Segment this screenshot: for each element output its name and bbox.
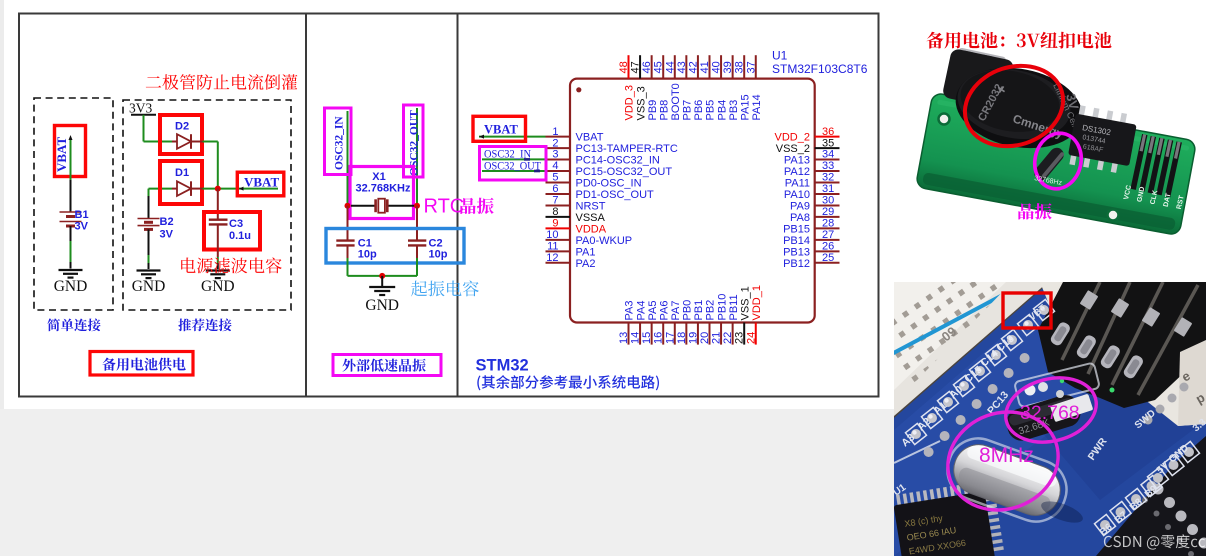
svg-text:10: 10 xyxy=(546,229,558,241)
pin 15 PA5 xyxy=(641,301,659,345)
svg-text:8MHz: 8MHz xyxy=(979,444,1034,467)
svg-text:4: 4 xyxy=(552,160,558,172)
net label OSC32_IN (vertical) xyxy=(325,108,352,206)
startup capacitors highlight box xyxy=(326,229,464,264)
svg-text:PA1: PA1 xyxy=(576,246,596,258)
svg-text:GND: GND xyxy=(201,278,235,295)
schematic sheet frame xyxy=(19,14,879,397)
wire VBAT to battery B1 xyxy=(69,135,73,212)
pin 44 BOOT0 xyxy=(664,55,682,120)
pin 18 PB0 xyxy=(676,300,694,345)
svg-text:48: 48 xyxy=(618,61,630,73)
svg-text:U1: U1 xyxy=(772,49,788,63)
IC U1 STM32F103C8T6 body xyxy=(570,79,815,323)
junction node (D1/D2/C3/VBAT) xyxy=(215,186,221,192)
wire D1 cathode to junction and VBAT xyxy=(203,188,279,190)
svg-text:PA5: PA5 xyxy=(647,301,659,321)
pin 21 PB10 xyxy=(711,294,729,345)
ground GND (B1) xyxy=(54,270,88,295)
annotation: startup capacitors (light blue) xyxy=(411,281,479,297)
svg-text:3: 3 xyxy=(552,149,558,161)
svg-text:46: 46 xyxy=(641,61,653,73)
svg-text:VSS_3: VSS_3 xyxy=(635,86,647,120)
svg-text:29: 29 xyxy=(822,206,834,218)
pin 41 PB5 xyxy=(699,55,717,120)
svg-text:VDD_2: VDD_2 xyxy=(775,132,810,144)
wire junction to capacitor C3 xyxy=(217,189,219,220)
svg-text:30: 30 xyxy=(822,195,834,207)
svg-text:PB2: PB2 xyxy=(705,300,717,321)
wire C3 to ground xyxy=(217,224,219,269)
wire C1 to ground rail xyxy=(347,245,349,276)
svg-text:OSC32_IN: OSC32_IN xyxy=(334,116,346,170)
svg-text:8: 8 xyxy=(552,206,558,218)
pin 4 PC15-OSC32_OUT xyxy=(546,160,673,178)
svg-text:PA0-WKUP: PA0-WKUP xyxy=(576,235,633,247)
capacitor C3 0.1u xyxy=(204,212,260,250)
svg-text:STM32: STM32 xyxy=(476,357,529,375)
pin 48 VDD_3 xyxy=(618,55,636,120)
wire D2 cathode to junction xyxy=(203,142,218,189)
wire battery B2 to ground xyxy=(148,229,150,269)
ground rail wire xyxy=(348,275,418,277)
svg-text:VBAT: VBAT xyxy=(576,132,604,144)
caption: simple connection xyxy=(47,319,100,332)
svg-text:38: 38 xyxy=(734,61,746,73)
pin 20 PB2 xyxy=(699,300,717,345)
annotation: RTC crystal (magenta) xyxy=(424,196,465,218)
svg-text:PC15-OSC32_OUT: PC15-OSC32_OUT xyxy=(576,166,673,178)
annotation: diode prevents current backflow (red) xyxy=(146,74,298,90)
junction node crystal right xyxy=(414,203,420,209)
net label VBAT (output) xyxy=(237,172,283,196)
pin 13 PA3 xyxy=(618,301,636,345)
photo: magenta ellipse 32.768 crystal xyxy=(999,369,1103,451)
svg-text:PA7: PA7 xyxy=(670,301,682,321)
svg-text:21: 21 xyxy=(711,332,723,344)
photo: red ellipse around battery xyxy=(954,53,1073,158)
photo: RTC crystal cylinder xyxy=(1031,145,1066,183)
svg-text:31: 31 xyxy=(822,183,834,195)
pin 24 VDD_1 xyxy=(745,285,763,345)
svg-text:20: 20 xyxy=(699,332,711,344)
photo: green PCB module board xyxy=(915,92,1196,235)
svg-text:35: 35 xyxy=(822,137,834,149)
battery B2 3V xyxy=(138,216,174,241)
svg-text:13: 13 xyxy=(618,332,630,344)
pin 39 PB3 xyxy=(722,55,740,120)
svg-text:VSS_1: VSS_1 xyxy=(739,286,751,320)
svg-text:PA6: PA6 xyxy=(658,301,670,321)
svg-text:VBAT: VBAT xyxy=(244,175,279,190)
photo: silkscreen pin labels xyxy=(1034,175,1186,210)
pin 36 VDD_2 xyxy=(775,126,840,144)
svg-text:PC14-OSC32_IN: PC14-OSC32_IN xyxy=(576,155,660,167)
svg-text:D1: D1 xyxy=(175,167,189,179)
svg-text:VDD_1: VDD_1 xyxy=(751,285,763,320)
wire 3V3 to diode D2 xyxy=(143,115,145,142)
svg-text:6: 6 xyxy=(552,183,558,195)
photo: DS1302 chip xyxy=(1066,105,1138,175)
net label OSC32_OUT (vertical) xyxy=(404,105,424,206)
photo: crystal caption (magenta) xyxy=(1018,203,1051,220)
dashed group box: simple connection xyxy=(34,98,113,310)
pin 34 PA13 xyxy=(784,149,840,167)
svg-text:RTC: RTC xyxy=(424,196,465,218)
svg-text:PA14: PA14 xyxy=(751,94,763,120)
photo: CSDN watermark xyxy=(1104,534,1205,549)
svg-text:PB1: PB1 xyxy=(693,300,705,321)
caption: rest refers to minimum system circuit xyxy=(477,375,659,390)
photo: pin header xyxy=(1130,134,1181,197)
svg-text:OSC32_OUT: OSC32_OUT xyxy=(484,161,541,173)
svg-text:PA15: PA15 xyxy=(739,94,751,120)
pin 14 PA4 xyxy=(630,301,648,345)
caption: recommended connection xyxy=(178,319,232,332)
photo: battery holder xyxy=(942,46,1015,110)
svg-text:PB4: PB4 xyxy=(716,100,728,121)
svg-text:25: 25 xyxy=(822,252,834,264)
svg-text:PB13: PB13 xyxy=(783,246,810,258)
pin 1 VBAT xyxy=(546,126,604,144)
ground GND (crystal) xyxy=(365,276,399,314)
power node 3V3 xyxy=(129,101,156,116)
pin 7 NRST xyxy=(546,195,606,213)
svg-text:24: 24 xyxy=(745,332,757,344)
wire D2 anode xyxy=(144,141,173,143)
svg-text:VSS_2: VSS_2 xyxy=(776,143,810,155)
pin 12 PA2 xyxy=(546,252,596,270)
pin 6 PD1-OSC_OUT xyxy=(546,183,655,201)
svg-text:X1: X1 xyxy=(372,171,385,183)
svg-text:28: 28 xyxy=(822,218,834,230)
svg-text:3V: 3V xyxy=(75,221,89,233)
svg-text:2: 2 xyxy=(552,137,558,149)
svg-text:D2: D2 xyxy=(175,121,189,133)
svg-text:GND: GND xyxy=(54,278,88,295)
svg-text:PA2: PA2 xyxy=(576,258,596,270)
pin 11 PA1 xyxy=(546,241,596,259)
svg-text:PB5: PB5 xyxy=(705,100,717,121)
svg-text:PB0: PB0 xyxy=(682,300,694,321)
photo: 32.768 kHz crystal xyxy=(1014,362,1100,407)
capacitor C1 10p xyxy=(336,238,377,261)
svg-text:PA10: PA10 xyxy=(784,189,810,201)
svg-text:22: 22 xyxy=(722,332,734,344)
svg-text:36: 36 xyxy=(822,126,834,138)
ground GND (C3) xyxy=(201,271,235,296)
pin 2 PC13-TAMPER-RTC xyxy=(546,137,678,155)
svg-text:NRST: NRST xyxy=(576,200,606,212)
svg-text:16: 16 xyxy=(653,332,665,344)
pin 16 PA6 xyxy=(653,301,671,345)
svg-text:C3: C3 xyxy=(229,218,243,230)
svg-text:GND: GND xyxy=(365,297,399,314)
svg-text:PB14: PB14 xyxy=(783,235,810,247)
svg-text:17: 17 xyxy=(664,332,676,344)
diode D2 xyxy=(160,115,203,154)
pin 47 VSS_3 xyxy=(630,55,648,120)
pin 27 PB14 xyxy=(783,229,839,247)
svg-text:PB6: PB6 xyxy=(693,100,705,121)
svg-text:PA8: PA8 xyxy=(790,212,810,224)
svg-text:32.768: 32.768 xyxy=(1020,402,1080,424)
svg-text:47: 47 xyxy=(630,61,642,73)
pin 17 PA7 xyxy=(664,301,682,345)
pin 38 PA15 xyxy=(734,55,752,120)
wire crystal to C1 xyxy=(347,206,349,241)
svg-text:VDDA: VDDA xyxy=(576,223,607,235)
svg-text:40: 40 xyxy=(711,61,723,73)
wire B2 to diode D1 xyxy=(149,189,173,218)
pin 8 VSSA xyxy=(546,206,606,224)
pin 33 PA12 xyxy=(784,160,840,178)
svg-text:26: 26 xyxy=(822,241,834,253)
svg-text:GND: GND xyxy=(132,278,166,295)
photo: backup battery title (red) xyxy=(927,32,1112,49)
ground GND (B2) xyxy=(132,271,166,296)
pin 25 PB12 xyxy=(783,252,839,270)
net label VBAT (to pin 1) xyxy=(473,116,546,141)
photo: red box around VBT pin xyxy=(1003,293,1051,328)
pin 29 PA8 xyxy=(790,206,839,224)
svg-text:PB11: PB11 xyxy=(728,294,740,320)
svg-text:10p: 10p xyxy=(358,249,377,261)
svg-text:15: 15 xyxy=(641,332,653,344)
svg-text:34: 34 xyxy=(822,149,834,161)
pin 43 PB7 xyxy=(676,55,694,120)
pin 46 PB9 xyxy=(641,55,659,120)
U1 pin-1 marker xyxy=(576,87,581,92)
dashed group box: recommended connection xyxy=(123,100,291,310)
photo: CR2032 coin cell xyxy=(949,58,1089,158)
svg-text:VDD_3: VDD_3 xyxy=(624,85,636,120)
svg-text:9: 9 xyxy=(552,218,558,230)
svg-text:3V3: 3V3 xyxy=(129,101,152,116)
pin 42 PB6 xyxy=(687,55,705,120)
svg-text:45: 45 xyxy=(653,61,665,73)
photo: 8MHz crystal xyxy=(939,430,1075,530)
net label VBAT (left branch) xyxy=(54,126,86,177)
pin 5 PD0-OSC_IN xyxy=(546,172,642,190)
svg-text:10p: 10p xyxy=(429,249,448,261)
svg-text:19: 19 xyxy=(687,332,699,344)
photo: magenta ellipse around crystal xyxy=(1030,129,1087,193)
pin 19 PB1 xyxy=(687,300,705,345)
pin 22 PB11 xyxy=(722,294,740,344)
svg-text:0.1u: 0.1u xyxy=(229,230,251,242)
caption box: external low speed crystal xyxy=(333,355,441,376)
svg-text:43: 43 xyxy=(676,61,688,73)
svg-text:23: 23 xyxy=(734,332,746,344)
svg-text:PB7: PB7 xyxy=(682,100,694,121)
svg-text:VSSA: VSSA xyxy=(576,212,606,224)
pin 9 VDDA xyxy=(546,218,607,236)
wire battery B1 to ground xyxy=(70,226,72,269)
svg-text:33: 33 xyxy=(822,160,834,172)
pin 10 PA0-WKUP xyxy=(546,229,633,247)
svg-text:44: 44 xyxy=(664,61,676,73)
svg-text:PB12: PB12 xyxy=(783,258,810,270)
svg-text:18: 18 xyxy=(676,332,688,344)
svg-text:PA13: PA13 xyxy=(784,155,810,167)
svg-text:PA3: PA3 xyxy=(624,301,636,321)
svg-text:41: 41 xyxy=(699,61,711,73)
pin 30 PA9 xyxy=(790,195,839,213)
svg-text:VBAT: VBAT xyxy=(54,137,69,172)
pin 45 PB8 xyxy=(653,55,671,120)
svg-text:37: 37 xyxy=(745,61,757,73)
pin 32 PA11 xyxy=(785,172,840,190)
svg-text:VBAT: VBAT xyxy=(484,123,518,137)
svg-text:PB10: PB10 xyxy=(716,294,728,321)
svg-text:12: 12 xyxy=(546,252,558,264)
svg-text:32: 32 xyxy=(822,172,834,184)
svg-text:B1: B1 xyxy=(75,209,89,221)
svg-text:PB8: PB8 xyxy=(658,100,670,121)
svg-text:PA12: PA12 xyxy=(784,166,810,178)
pin 26 PB13 xyxy=(783,241,839,259)
photo: magenta ellipse 8MHz crystal xyxy=(934,397,1072,526)
wire crystal to C2 xyxy=(416,206,418,241)
svg-text:PD1-OSC_OUT: PD1-OSC_OUT xyxy=(576,189,655,201)
svg-text:PA4: PA4 xyxy=(635,301,647,321)
diode D1 xyxy=(160,161,203,204)
svg-text:3V: 3V xyxy=(160,229,174,241)
caption box: backup battery power supply xyxy=(90,352,193,376)
pin 37 PA14 xyxy=(745,55,763,120)
pin 3 PC14-OSC32_IN xyxy=(546,149,660,167)
pin 28 PB15 xyxy=(783,218,839,236)
net label OSC32_IN / OSC32_OUT (to pins 3,4) xyxy=(480,147,547,181)
junction node ground rail xyxy=(379,273,385,279)
battery B1 3V xyxy=(60,209,89,233)
wire C2 to ground rail xyxy=(416,245,418,276)
svg-text:14: 14 xyxy=(630,332,642,344)
pin 31 PA10 xyxy=(784,183,840,201)
annotation: power filter capacitor (red) xyxy=(181,258,281,274)
svg-text:11: 11 xyxy=(547,241,558,253)
svg-text:PB15: PB15 xyxy=(783,223,810,235)
svg-text:27: 27 xyxy=(822,229,834,241)
svg-text:PA11: PA11 xyxy=(785,177,810,189)
svg-text:PA9: PA9 xyxy=(790,200,810,212)
svg-text:1: 1 xyxy=(552,126,558,138)
svg-text:32.768KHz: 32.768KHz xyxy=(355,183,411,195)
svg-text:PC13-TAMPER-RTC: PC13-TAMPER-RTC xyxy=(576,143,678,155)
svg-text:B2: B2 xyxy=(160,216,174,228)
svg-text:PB3: PB3 xyxy=(728,100,740,121)
crystal X1 32.768KHz xyxy=(350,167,415,219)
svg-text:42: 42 xyxy=(687,61,699,73)
svg-text:BOOT0: BOOT0 xyxy=(670,83,682,120)
svg-text:5: 5 xyxy=(552,172,558,184)
junction node crystal left xyxy=(345,203,351,209)
pin 23 VSS_1 xyxy=(734,286,752,344)
svg-text:PD0-OSC_IN: PD0-OSC_IN xyxy=(576,177,642,189)
svg-text:STM32F103C8T6: STM32F103C8T6 xyxy=(772,62,868,76)
svg-text:39: 39 xyxy=(722,61,734,73)
capacitor C2 10p xyxy=(408,238,448,261)
svg-text:7: 7 xyxy=(552,195,558,207)
svg-text:PB9: PB9 xyxy=(647,100,659,121)
pin 40 PB4 xyxy=(711,55,729,120)
pin 35 VSS_2 xyxy=(776,137,840,155)
